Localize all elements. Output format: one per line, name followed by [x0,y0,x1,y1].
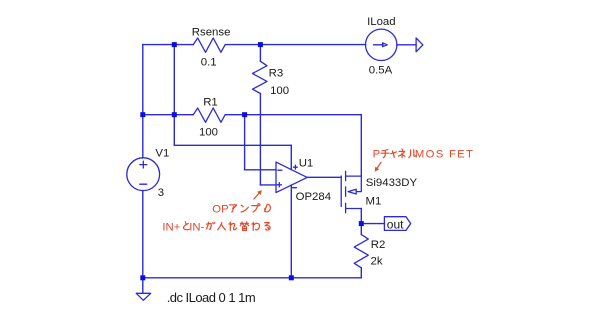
wire ground stub [142,278,144,293]
svg-text:R3: R3 [269,67,284,79]
ground flag right (ILoad return) [416,38,423,52]
wire op-amp V+ supply horizontal [174,144,291,146]
red kana ru [409,150,417,158]
voltage source V1 [127,158,160,191]
wire M1 source column [360,115,362,176]
transistor M1 source tap [346,175,362,177]
node B junction (Rsense/R3/ILoad) [258,42,263,47]
red kana to [183,222,189,230]
svg-text:Rsense: Rsense [192,26,231,38]
wire R3 bottom lead to op-amp IN+ [259,94,261,185]
resistor R3 [253,61,268,93]
svg-text:0.1: 0.1 [201,56,217,68]
svg-text:IN-: IN- [189,221,204,233]
wire R1 row right to M1 source column [225,114,361,116]
wire op-amp V+ supply vertical (pin V+) [290,145,292,169]
node 0 ground junction [140,275,145,280]
svg-text:MOS FET: MOS FET [415,149,473,161]
svg-text:U1: U1 [299,158,314,170]
wire left rail lower (batt-) [142,191,144,278]
svg-text:R1: R1 [203,96,218,108]
resistor R2 [354,235,368,268]
op-amp U1 triangle [276,162,307,193]
red kana re [229,222,237,230]
op-amp U1 IN+ mark [277,183,281,187]
wire op-amp V- supply vertical (pin V-) [290,185,292,278]
svg-text:100: 100 [199,126,218,138]
node batt+ R1 junction [172,112,177,117]
wire M1 drain to node out [360,209,362,235]
op-amp U1 V- mark [293,187,297,189]
node out junction [359,221,364,226]
svg-text:R2: R2 [371,239,386,251]
wire op-amp IN- vertical [244,115,246,170]
svg-text:2k: 2k [371,255,383,267]
wire bottom rail (node 0) [143,277,361,279]
op-amp U1 V+ mark [294,165,298,169]
wire op-amp output to M1 gate [307,176,341,178]
resistor Rsense [193,38,225,52]
svg-text:OP: OP [212,203,228,215]
wire R1 row left [143,114,194,116]
red kana a [230,205,237,212]
transistor M1 bulk tap with arrow [356,176,361,192]
wire node out to flag [361,223,384,225]
node R1-right junction [242,112,247,117]
svg-text:ILoad: ILoad [367,16,396,28]
svg-text:100: 100 [270,85,289,97]
red kana wa [252,222,260,230]
svg-text:P: P [373,149,381,161]
svg-text:.dc ILoad 0 1 1m: .dc ILoad 0 1 1m [167,290,256,305]
resistor R1 [193,108,225,122]
red kanji hairu [218,223,226,230]
red kana ga [207,222,215,229]
current source ILoad [366,29,397,60]
node batt+ top junction [172,42,177,47]
red kana ne [399,149,405,158]
wire column node batt+ down [173,45,175,146]
wire left rail upper (batt+) [142,45,144,158]
wire ILoad to ground flag [397,44,416,46]
svg-text:OP284: OP284 [296,191,331,203]
svg-text:M1: M1 [366,195,382,207]
red kanji kae [240,222,249,231]
red kana n [241,205,248,212]
transistor M1 (PMOS) gate bar [340,176,342,207]
red kana chi [381,150,389,158]
wire R3 top lead [259,45,261,62]
svg-text:out: out [387,217,404,231]
red kana no [265,204,271,212]
svg-text:IN+: IN+ [162,221,180,233]
svg-text:0.5A: 0.5A [369,65,393,77]
ground [136,293,151,300]
wire top row right (node B to ILoad) [225,44,365,46]
transistor M1 drain tap [346,208,362,210]
svg-text:Si9433DY: Si9433DY [366,177,418,189]
net flag out [384,217,410,231]
red kana ru (hiragana) [265,223,270,231]
red arrow to op-amp input [254,193,259,199]
wire op-amp IN+ horizontal [260,184,276,186]
node 0 V- junction [289,275,294,280]
svg-text:V1: V1 [155,147,169,159]
wire top row left (node batt+) [143,44,194,46]
op-amp U1 IN- mark [278,169,282,171]
red arrow to M1 [377,162,381,168]
wire op-amp IN- horizontal [245,169,276,171]
red kana pu [252,204,260,212]
red kana small ya [391,151,397,157]
node batt+ rail junction [140,112,145,117]
wire R2 bottom lead [360,268,362,278]
transistor M1 channel segments [345,171,347,212]
svg-text:3: 3 [158,187,164,199]
